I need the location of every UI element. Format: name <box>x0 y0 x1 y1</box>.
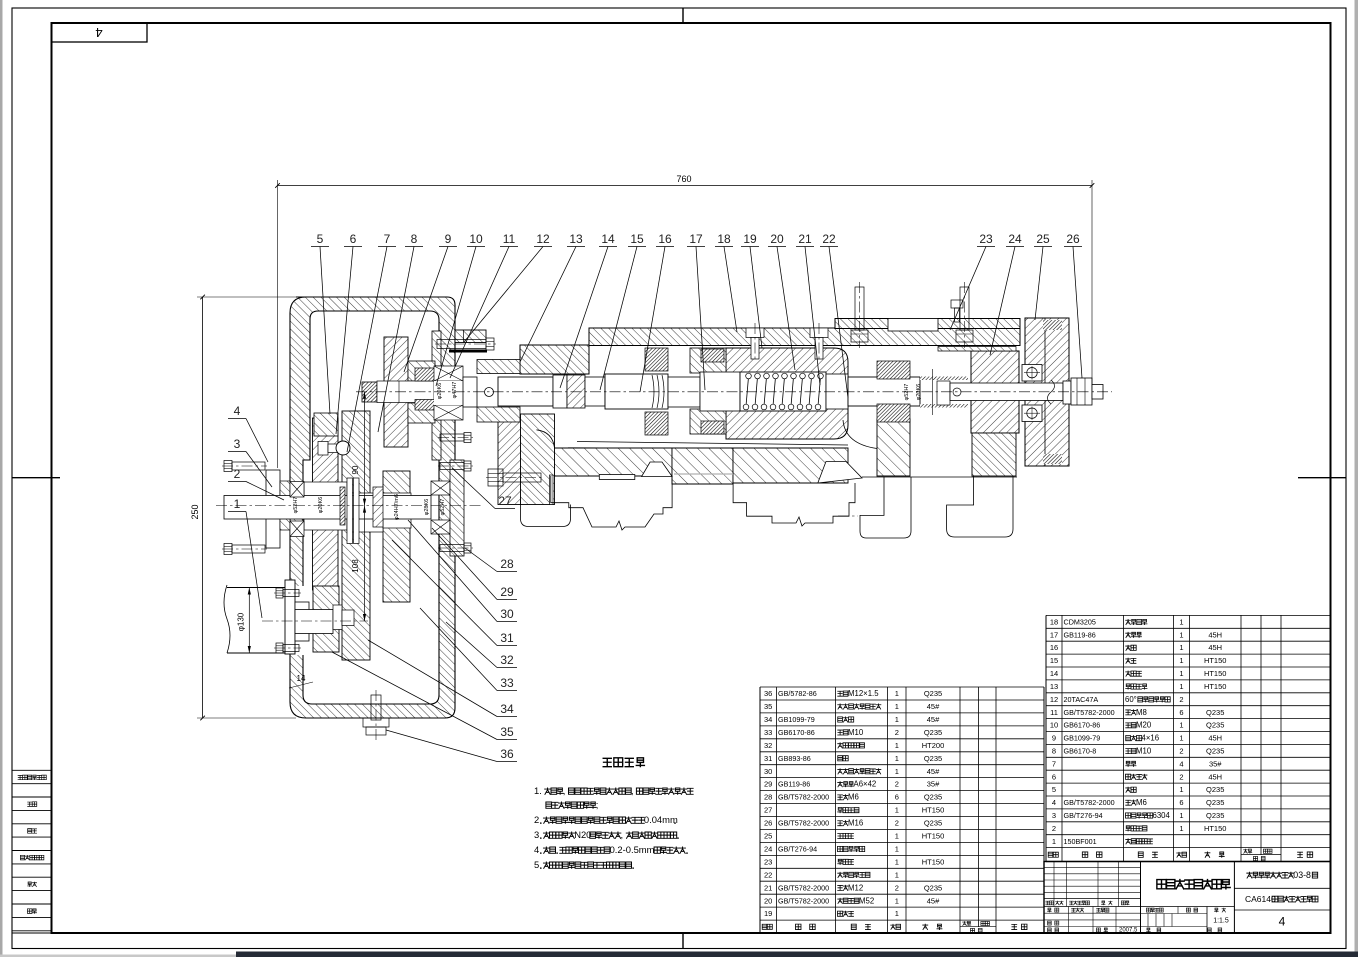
svg-text:M12: M12 <box>848 883 863 892</box>
svg-text:760: 760 <box>676 174 691 184</box>
svg-text:HT150: HT150 <box>922 857 945 866</box>
svg-text:45H: 45H <box>1208 630 1222 639</box>
svg-text:16: 16 <box>1050 643 1058 652</box>
svg-text:1: 1 <box>1179 669 1183 678</box>
svg-text:4: 4 <box>234 404 241 418</box>
svg-text:M52: M52 <box>859 896 874 905</box>
svg-text:18: 18 <box>1050 618 1058 627</box>
svg-text:1: 1 <box>895 754 899 763</box>
svg-text:3: 3 <box>234 437 241 451</box>
svg-text:26: 26 <box>764 819 772 828</box>
svg-text:31: 31 <box>500 631 514 645</box>
svg-text:12: 12 <box>1050 695 1058 704</box>
svg-text:14: 14 <box>1050 669 1058 678</box>
svg-text:M6: M6 <box>848 793 859 802</box>
svg-text:GB119-86: GB119-86 <box>778 780 810 789</box>
svg-text:GB/T5782-2000: GB/T5782-2000 <box>778 793 829 802</box>
svg-text:11: 11 <box>503 232 516 246</box>
svg-text:Q235: Q235 <box>924 793 942 802</box>
svg-text:Q235: Q235 <box>1206 811 1224 820</box>
svg-text:2: 2 <box>1179 695 1183 704</box>
svg-text:Q235: Q235 <box>924 883 942 892</box>
svg-text:15: 15 <box>1050 656 1058 665</box>
svg-text:CA6140: CA6140 <box>1245 894 1276 904</box>
svg-text:1: 1 <box>1052 837 1056 846</box>
svg-text:Q235: Q235 <box>1206 798 1224 807</box>
svg-text:13: 13 <box>569 232 583 246</box>
svg-text:1: 1 <box>895 870 899 879</box>
svg-text:φ28K6: φ28K6 <box>424 499 430 515</box>
svg-text:GB/T5782-2000: GB/T5782-2000 <box>1064 708 1115 717</box>
svg-text:45H: 45H <box>1208 734 1222 743</box>
svg-text:0.04mm: 0.04mm <box>644 814 678 825</box>
svg-text:HT150: HT150 <box>1204 682 1227 691</box>
svg-text:29: 29 <box>500 585 514 599</box>
svg-text:45H: 45H <box>1208 643 1222 652</box>
svg-text:35#: 35# <box>927 780 940 789</box>
svg-text:35: 35 <box>764 702 772 711</box>
svg-text:GB/T276-94: GB/T276-94 <box>778 845 817 854</box>
svg-text:A6×42: A6×42 <box>854 780 877 789</box>
svg-text:HT150: HT150 <box>1204 669 1227 678</box>
svg-text:1: 1 <box>895 689 899 698</box>
svg-text:8: 8 <box>1052 747 1056 756</box>
svg-text:,: , <box>563 785 566 796</box>
svg-text:GB6170-8: GB6170-8 <box>1064 747 1097 756</box>
svg-text:2: 2 <box>1179 747 1183 756</box>
svg-text:M20: M20 <box>1136 721 1152 730</box>
svg-text:2: 2 <box>895 728 899 737</box>
svg-text:250: 250 <box>190 504 200 519</box>
svg-text:N20: N20 <box>574 829 591 840</box>
svg-text:28: 28 <box>764 793 772 802</box>
svg-text:1: 1 <box>895 896 899 905</box>
svg-text:6304: 6304 <box>1153 811 1171 820</box>
svg-text:GB/T5782-2000: GB/T5782-2000 <box>778 819 829 828</box>
svg-text:19: 19 <box>743 232 757 246</box>
svg-text:3: 3 <box>534 829 539 840</box>
svg-text:4: 4 <box>1179 759 1183 768</box>
svg-text:4: 4 <box>1279 915 1286 929</box>
svg-text:17: 17 <box>689 232 703 246</box>
svg-text:1: 1 <box>1179 824 1183 833</box>
svg-text:1: 1 <box>1179 682 1183 691</box>
svg-text:14: 14 <box>601 232 615 246</box>
svg-text:9: 9 <box>445 232 452 246</box>
svg-text:11: 11 <box>1050 708 1058 717</box>
svg-text:GB/T5782-2000: GB/T5782-2000 <box>778 896 829 905</box>
svg-text:M8: M8 <box>1136 708 1147 717</box>
svg-text:M12×1.5: M12×1.5 <box>848 689 879 698</box>
svg-text:1: 1 <box>895 741 899 750</box>
svg-text:HT150: HT150 <box>1204 824 1227 833</box>
svg-text:Q235: Q235 <box>924 819 942 828</box>
svg-text:3: 3 <box>1052 811 1056 820</box>
svg-text:6: 6 <box>1052 772 1056 781</box>
svg-text:GB1099-79: GB1099-79 <box>778 715 815 724</box>
svg-text:03-8: 03-8 <box>1293 870 1311 880</box>
svg-text:1: 1 <box>1179 811 1183 820</box>
svg-text:1: 1 <box>1179 618 1183 627</box>
svg-text:1: 1 <box>895 857 899 866</box>
svg-text:26: 26 <box>1066 232 1080 246</box>
svg-text:25: 25 <box>1036 232 1050 246</box>
svg-text:4: 4 <box>95 25 102 40</box>
svg-text:33: 33 <box>500 676 514 690</box>
svg-text:φ47H7: φ47H7 <box>452 382 458 399</box>
svg-text:M10: M10 <box>1136 747 1152 756</box>
svg-text:CDM3205: CDM3205 <box>1064 618 1096 627</box>
svg-text:;: ; <box>596 799 599 810</box>
svg-text:20: 20 <box>764 896 772 905</box>
svg-text:2: 2 <box>534 814 539 825</box>
svg-text:30: 30 <box>500 607 514 621</box>
svg-text:φ24H7/m6: φ24H7/m6 <box>394 494 400 520</box>
svg-text:1.: 1. <box>534 785 542 796</box>
svg-text:1: 1 <box>895 909 899 918</box>
svg-text:GB6170-86: GB6170-86 <box>1064 721 1101 730</box>
svg-text:2: 2 <box>895 883 899 892</box>
svg-text:20: 20 <box>770 232 784 246</box>
svg-text:45#: 45# <box>927 702 940 711</box>
svg-text:HT150: HT150 <box>1204 656 1227 665</box>
svg-text:M6: M6 <box>1136 798 1147 807</box>
svg-text:7: 7 <box>1052 759 1056 768</box>
svg-text:45#: 45# <box>927 715 940 724</box>
svg-text:Q235: Q235 <box>1206 785 1224 794</box>
svg-text:1: 1 <box>1179 785 1183 794</box>
svg-text:35#: 35# <box>1209 759 1222 768</box>
svg-text:25: 25 <box>764 832 772 841</box>
svg-text:6: 6 <box>1179 708 1183 717</box>
svg-text:108: 108 <box>351 559 360 573</box>
svg-text:φ130: φ130 <box>237 612 246 631</box>
svg-text:1: 1 <box>1179 643 1183 652</box>
svg-text:1:1.5: 1:1.5 <box>1213 918 1229 925</box>
svg-text:HT200: HT200 <box>922 741 945 750</box>
svg-text:2: 2 <box>234 467 241 481</box>
svg-text:GB/T276-94: GB/T276-94 <box>1064 811 1103 820</box>
svg-text:Q235: Q235 <box>1206 708 1224 717</box>
svg-text:φ52H7: φ52H7 <box>440 499 446 516</box>
svg-text:24: 24 <box>764 845 772 854</box>
svg-text:φ52H7: φ52H7 <box>904 384 910 401</box>
svg-text:GB1099-79: GB1099-79 <box>1064 734 1101 743</box>
svg-text:21: 21 <box>764 883 772 892</box>
svg-text:φ52H7: φ52H7 <box>293 497 299 514</box>
svg-text:GB/T5782-2000: GB/T5782-2000 <box>778 883 829 892</box>
svg-text:φ20K6: φ20K6 <box>916 384 922 400</box>
svg-text:φ20K6: φ20K6 <box>318 497 324 513</box>
svg-text:22: 22 <box>822 232 836 246</box>
svg-text:17: 17 <box>1050 630 1058 639</box>
svg-text:1: 1 <box>1179 656 1183 665</box>
svg-text:27: 27 <box>498 494 512 508</box>
svg-text:1: 1 <box>895 806 899 815</box>
svg-text:GB119-86: GB119-86 <box>1064 630 1096 639</box>
svg-text:13: 13 <box>1050 682 1058 691</box>
svg-text:34: 34 <box>500 702 514 716</box>
svg-text:19: 19 <box>764 909 772 918</box>
svg-text:HT150: HT150 <box>922 806 945 815</box>
svg-text:M16: M16 <box>848 819 863 828</box>
svg-text:32: 32 <box>500 653 514 667</box>
svg-text:60°: 60° <box>1125 695 1137 704</box>
svg-text:1: 1 <box>1179 734 1183 743</box>
svg-text:Q235: Q235 <box>1206 747 1224 756</box>
svg-text:8: 8 <box>411 232 418 246</box>
svg-text:18: 18 <box>717 232 731 246</box>
svg-text:1: 1 <box>895 715 899 724</box>
svg-text:34: 34 <box>764 715 772 724</box>
svg-text:1: 1 <box>1179 630 1183 639</box>
svg-text:35: 35 <box>500 725 514 739</box>
svg-text:HT150: HT150 <box>922 832 945 841</box>
svg-text:28: 28 <box>500 557 514 571</box>
svg-text:1: 1 <box>234 497 241 511</box>
svg-text:Q235: Q235 <box>1206 721 1224 730</box>
svg-text:23: 23 <box>979 232 993 246</box>
svg-text:12: 12 <box>536 232 550 246</box>
svg-text:2: 2 <box>1052 824 1056 833</box>
svg-text:6: 6 <box>895 793 899 802</box>
svg-text:36: 36 <box>500 747 514 761</box>
svg-text:4×16: 4×16 <box>1142 734 1160 743</box>
svg-text:90: 90 <box>351 465 360 474</box>
svg-text:6: 6 <box>1179 798 1183 807</box>
svg-text:,: , <box>631 785 634 796</box>
svg-text:1: 1 <box>1179 721 1183 730</box>
svg-text:GB/5782-86: GB/5782-86 <box>778 689 817 698</box>
svg-text:1: 1 <box>895 702 899 711</box>
svg-text:Q235: Q235 <box>924 754 942 763</box>
svg-text:φ20K6: φ20K6 <box>437 383 443 399</box>
svg-text:2: 2 <box>895 780 899 789</box>
svg-text:45H: 45H <box>1208 772 1222 781</box>
svg-text:9: 9 <box>1052 734 1056 743</box>
svg-text:7: 7 <box>384 232 391 246</box>
svg-text:16: 16 <box>658 232 672 246</box>
svg-text:22: 22 <box>764 870 772 879</box>
svg-text:150BF001: 150BF001 <box>1064 837 1097 846</box>
svg-text:45#: 45# <box>927 767 940 776</box>
svg-text:Q235: Q235 <box>924 689 942 698</box>
svg-text:30: 30 <box>764 767 772 776</box>
svg-text:2: 2 <box>1179 772 1183 781</box>
svg-text:10: 10 <box>1050 721 1058 730</box>
svg-text:32: 32 <box>764 741 772 750</box>
svg-text:5: 5 <box>317 232 324 246</box>
svg-text:GB/T5782-2000: GB/T5782-2000 <box>1064 798 1115 807</box>
svg-text:Q235: Q235 <box>924 728 942 737</box>
svg-text:,: , <box>621 829 624 840</box>
svg-text:15: 15 <box>630 232 644 246</box>
svg-text:GB893-86: GB893-86 <box>778 754 811 763</box>
svg-text:GB6170-86: GB6170-86 <box>778 728 815 737</box>
svg-text:2007.5: 2007.5 <box>1119 928 1138 934</box>
svg-text:1: 1 <box>895 845 899 854</box>
svg-text:5: 5 <box>534 859 539 870</box>
svg-text:27: 27 <box>764 806 772 815</box>
svg-text:1: 1 <box>895 832 899 841</box>
svg-text:29: 29 <box>764 780 772 789</box>
svg-text:21: 21 <box>798 232 812 246</box>
svg-text:4: 4 <box>534 844 539 855</box>
svg-text:1: 1 <box>895 767 899 776</box>
svg-text:10: 10 <box>469 232 483 246</box>
svg-text:23: 23 <box>764 857 772 866</box>
svg-text:14: 14 <box>297 674 306 683</box>
svg-text:33: 33 <box>764 728 772 737</box>
svg-text:45#: 45# <box>927 896 940 905</box>
svg-text:5: 5 <box>1052 785 1056 794</box>
svg-text:4: 4 <box>1052 798 1056 807</box>
svg-text:31: 31 <box>764 754 772 763</box>
svg-text:24: 24 <box>1008 232 1022 246</box>
svg-text:36: 36 <box>764 689 772 698</box>
svg-text:6: 6 <box>350 232 357 246</box>
svg-text:2: 2 <box>895 819 899 828</box>
svg-text:M10: M10 <box>848 728 864 737</box>
svg-text:0.2-0.5mm: 0.2-0.5mm <box>610 844 655 855</box>
svg-text:20TAC47A: 20TAC47A <box>1064 695 1099 704</box>
